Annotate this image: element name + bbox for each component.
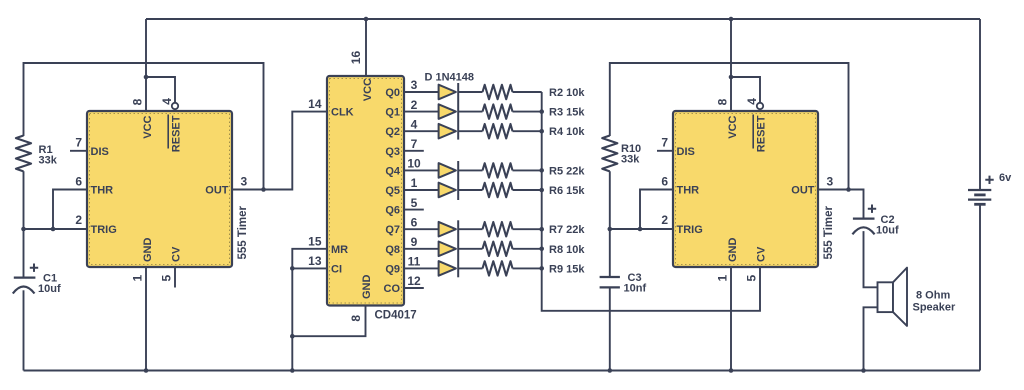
svg-text:6v: 6v [999, 172, 1012, 184]
svg-text:GND: GND [727, 238, 739, 263]
svg-text:555 Timer: 555 Timer [237, 205, 249, 259]
svg-text:Speaker: Speaker [913, 302, 957, 314]
svg-text:CD4017: CD4017 [375, 310, 417, 322]
svg-text:THR: THR [91, 185, 114, 197]
svg-text:Q1: Q1 [385, 107, 400, 119]
wire: Q4 pin to diode [404, 169, 439, 171]
wire: RESET pin 4 branch (right) [731, 77, 760, 103]
speaker LS1 (8 Ohm) [878, 282, 894, 312]
svg-text:16: 16 [349, 51, 363, 65]
svg-text:VCC: VCC [362, 78, 374, 101]
pin 4 inversion bubble (right 555) [757, 103, 763, 109]
junction: rail at R5 [539, 168, 544, 173]
svg-text:555 Timer: 555 Timer [823, 205, 835, 259]
junction: ground rail at left 555 GND [144, 368, 149, 373]
svg-text:5: 5 [411, 196, 418, 210]
svg-text:D 1N4148: D 1N4148 [425, 72, 475, 84]
capacitor C1 (polarized 10uf) [14, 277, 36, 279]
wire: right 555 OUT to junction [818, 189, 849, 191]
battery BT1 6v [968, 189, 991, 191]
junction: rail at R9 [539, 266, 544, 271]
svg-text:6: 6 [661, 175, 668, 189]
svg-text:VCC: VCC [727, 115, 739, 138]
svg-text:3: 3 [411, 78, 418, 92]
junction: VCC/RESET branch (left) [144, 75, 149, 80]
svg-text:1: 1 [130, 275, 144, 282]
svg-text:33k: 33k [39, 155, 58, 167]
svg-text:R4 10k: R4 10k [549, 126, 585, 138]
diode D1 (1N4148) on Q0 [439, 85, 456, 100]
resistor R6 [483, 183, 513, 197]
svg-text:6: 6 [411, 215, 418, 229]
svg-text:VCC: VCC [142, 115, 154, 138]
svg-text:13: 13 [308, 254, 322, 268]
wire: OUT node to CD4017 CLK [264, 112, 328, 190]
wire: battery positive lead from top rail [979, 19, 981, 190]
svg-text:5: 5 [745, 275, 759, 282]
svg-text:8: 8 [131, 98, 145, 105]
svg-text:GND: GND [361, 275, 373, 300]
wire: MR pin 15 to ground column [292, 249, 327, 371]
svg-text:3: 3 [241, 175, 248, 189]
wire: right 555 OUT feedback loop down to R10 [610, 63, 849, 190]
IC U1 555 Timer (left) [87, 111, 232, 267]
junction: top rail to right 555 VCC [729, 17, 734, 22]
wire: VCC pin 8 from top rail into left 555 [145, 19, 147, 111]
wire: diode to resistor R8 [458, 248, 482, 250]
svg-text:14: 14 [308, 97, 322, 111]
svg-text:4: 4 [411, 117, 418, 131]
resistor R3 [483, 104, 513, 118]
junction: rail at R8 [539, 247, 544, 252]
wire: C1 to ground rail [23, 290, 25, 370]
svg-text:Q8: Q8 [385, 244, 400, 256]
wire: cathode bar group 3 (Q7-Q9) [457, 220, 459, 277]
junction: OUT node (left) [261, 187, 266, 192]
svg-text:RESET: RESET [171, 115, 183, 152]
svg-text:MR: MR [331, 244, 348, 256]
svg-text:1: 1 [411, 176, 418, 190]
svg-text:15: 15 [308, 234, 322, 248]
svg-text:33k: 33k [621, 154, 640, 166]
wire: top +V power rail [146, 18, 980, 20]
diode D4 (1N4148) on Q4 [439, 163, 456, 178]
wire: TRIG row to R1/C1 column [24, 228, 88, 230]
wire: left 555 CV pin 5 stub [174, 267, 176, 288]
capacitor C2 (polarized 10uf) [853, 218, 875, 220]
wire: CO pin stub [404, 287, 424, 289]
svg-text:10: 10 [407, 157, 421, 171]
diode D8 (1N4148) on Q9 [439, 261, 456, 276]
svg-text:8: 8 [349, 315, 363, 322]
wire: left 555 OUT feedback loop down to R1 [24, 63, 264, 190]
wire: C2 to speaker [864, 231, 878, 287]
wire: diode to resistor R3 [458, 111, 482, 113]
svg-text:R3 15k: R3 15k [549, 107, 585, 119]
svg-text:Q2: Q2 [385, 126, 400, 138]
svg-text:Q6: Q6 [385, 205, 400, 217]
pin 4 inversion bubble (left 555) [172, 103, 178, 109]
junction: MR/CI tie [290, 266, 295, 271]
svg-text:Q7: Q7 [385, 224, 400, 236]
wire: resistor R2 to mix rail [513, 91, 542, 93]
svg-text:10uf: 10uf [876, 224, 899, 236]
wire: CI pin 13 stub [292, 267, 327, 269]
wire: R1 to C1 through TRIG node [23, 171, 25, 277]
svg-text:7: 7 [411, 137, 418, 151]
resistor R7 [483, 222, 513, 236]
svg-text:11: 11 [408, 255, 421, 269]
wire: diode to resistor R4 [458, 130, 482, 132]
wire: bottom ground rail [24, 370, 981, 372]
svg-text:R8 10k: R8 10k [549, 244, 585, 256]
svg-text:OUT: OUT [791, 185, 815, 197]
svg-text:CLK: CLK [331, 107, 354, 119]
svg-text:GND: GND [142, 238, 154, 263]
svg-text:10uf: 10uf [38, 283, 61, 295]
svg-text:Q4: Q4 [385, 165, 401, 177]
junction: R10/C3/TRIG node [608, 227, 613, 232]
wire: Q9 pin to diode [404, 267, 439, 269]
svg-text:7: 7 [661, 136, 668, 150]
svg-text:Q0: Q0 [385, 87, 400, 99]
wire: DIS pin stub (right) [657, 150, 673, 152]
resistor R5 [483, 163, 513, 177]
svg-text:4: 4 [160, 98, 174, 105]
wire: resistor R5 to mix rail [513, 169, 542, 171]
IC U2 CD4017 [327, 76, 404, 306]
wire: OUT node to C2 [849, 190, 864, 219]
wire: resistor R9 to mix rail [513, 267, 542, 269]
wire: Q8 pin to diode [404, 248, 439, 250]
wire: TRIG row to R10/C3 column [610, 228, 673, 230]
wire: R10 to C3 through TRIG node [609, 171, 611, 277]
svg-text:2: 2 [661, 213, 668, 227]
resistor R4 [483, 124, 513, 138]
wire: cathode bar group 1 (Q0-Q2) [457, 83, 459, 140]
resistor R8 [483, 242, 513, 256]
wire: resistor R8 to mix rail [513, 248, 542, 250]
wire: Q1 pin to diode [404, 111, 439, 113]
svg-text:DIS: DIS [677, 146, 695, 158]
diode D5 (1N4148) on Q5 [439, 183, 456, 198]
diode D3 (1N4148) on Q2 [439, 124, 456, 139]
wire: left 555 THR loop to TRIG node [53, 190, 87, 230]
junction: ground rail at C3 [608, 368, 613, 373]
wire: Q2 pin to diode [404, 130, 439, 132]
wire: Q7 pin to diode [404, 228, 439, 230]
wire: speaker to ground rail [864, 307, 878, 370]
svg-text:THR: THR [677, 185, 700, 197]
wire: mixing rail down to right 555 CV pin 5 [542, 92, 760, 311]
diode D2 (1N4148) on Q1 [439, 104, 456, 119]
junction: THR-TRIG tie [51, 227, 56, 232]
junction: VCC/RESET branch (right) [729, 75, 734, 80]
junction: THR-TRIG tie (right) [638, 227, 643, 232]
svg-text:7: 7 [75, 136, 82, 150]
junction: ground rail at right 555 GND [729, 368, 734, 373]
svg-text:Q3: Q3 [385, 146, 400, 158]
junction: OUT node (right) [846, 187, 851, 192]
svg-text:CO: CO [384, 283, 401, 295]
svg-text:10nf: 10nf [624, 282, 647, 294]
svg-text:1: 1 [715, 275, 729, 282]
svg-text:3: 3 [827, 175, 834, 189]
svg-text:9: 9 [411, 235, 418, 249]
wire: resistor R6 to mix rail [513, 189, 542, 191]
wire: resistor R4 to mix rail [513, 130, 542, 132]
resistor R1 [16, 136, 31, 172]
wire: CD4017 GND pin 8 to MR/CI column [292, 306, 365, 337]
wire: cathode bar group 2 (Q4-Q5) [457, 161, 459, 200]
diode D7 (1N4148) on Q8 [439, 242, 456, 257]
resistor R10 [602, 136, 617, 172]
svg-text:RESET: RESET [756, 115, 768, 152]
junction: rail at R6 [539, 188, 544, 193]
svg-text:TRIG: TRIG [677, 224, 703, 236]
wire: resistor R7 to mix rail [513, 228, 542, 230]
wire: diode to resistor R7 [458, 228, 482, 230]
resistor R2 [483, 85, 513, 99]
junction: rail at R3 [539, 109, 544, 114]
capacitor C3 (10nf) [600, 276, 620, 278]
svg-text:R2 10k: R2 10k [549, 87, 585, 99]
wire: VCC pin 8 from top rail into right 555 [730, 19, 732, 111]
svg-text:R6 15k: R6 15k [549, 185, 585, 197]
wire: left 555 GND pin 1 to ground rail [145, 267, 147, 371]
junction: GND8 joins MR/CI column [290, 334, 295, 339]
wire: C3 to ground rail [609, 287, 611, 370]
junction: rail at R4 [539, 129, 544, 134]
junction: ground rail at speaker [861, 368, 866, 373]
svg-text:5: 5 [160, 275, 174, 282]
wire: Q5 pin to diode [404, 189, 439, 191]
wire: Q6 pin stub [404, 209, 424, 211]
svg-text:CV: CV [171, 246, 183, 262]
svg-text:R5 22k: R5 22k [549, 165, 585, 177]
svg-text:OUT: OUT [205, 185, 229, 197]
wire: battery negative lead to ground rail [979, 204, 981, 370]
svg-text:2: 2 [75, 213, 82, 227]
svg-text:R9 15k: R9 15k [549, 263, 585, 275]
svg-text:Q9: Q9 [385, 263, 400, 275]
svg-text:4: 4 [745, 98, 759, 105]
wire: resistor R3 to mix rail [513, 111, 542, 113]
wire: Q3 pin stub [404, 150, 424, 152]
wire: DIS pin stub [70, 150, 87, 152]
svg-text:TRIG: TRIG [91, 224, 117, 236]
IC U3 555 Timer (right) [673, 111, 818, 267]
svg-text:CV: CV [756, 246, 768, 262]
svg-text:12: 12 [407, 274, 421, 288]
diode D6 (1N4148) on Q7 [439, 222, 456, 237]
wire: Q0 pin to diode [404, 91, 439, 93]
wire: diode to resistor R2 [458, 91, 482, 93]
resistor R9 [483, 261, 513, 275]
junction: ground rail at CD4017 GND [290, 368, 295, 373]
wire: RESET pin 4 branch (left) [146, 77, 175, 103]
wire: diode to resistor R9 [458, 267, 482, 269]
wire: left 555 OUT to junction [232, 189, 264, 191]
wire: diode to resistor R5 [458, 169, 482, 171]
svg-text:R7 22k: R7 22k [549, 224, 585, 236]
wire: CD4017 VCC pin 16 to top rail [365, 19, 367, 76]
svg-text:CI: CI [331, 263, 342, 275]
svg-text:6: 6 [75, 175, 82, 189]
svg-text:2: 2 [411, 98, 418, 112]
wire: right 555 GND pin 1 to ground rail [730, 267, 732, 371]
svg-text:DIS: DIS [91, 146, 109, 158]
svg-text:8 Ohm: 8 Ohm [916, 290, 950, 302]
wire: diode to resistor R6 [458, 189, 482, 191]
junction: rail at R7 [539, 227, 544, 232]
junction: top rail to CD4017 VCC [364, 17, 369, 22]
junction: R1/C1/TRIG node [21, 227, 26, 232]
wire: right 555 THR loop to TRIG node [640, 190, 673, 230]
svg-text:8: 8 [716, 98, 730, 105]
svg-text:Q5: Q5 [385, 185, 400, 197]
